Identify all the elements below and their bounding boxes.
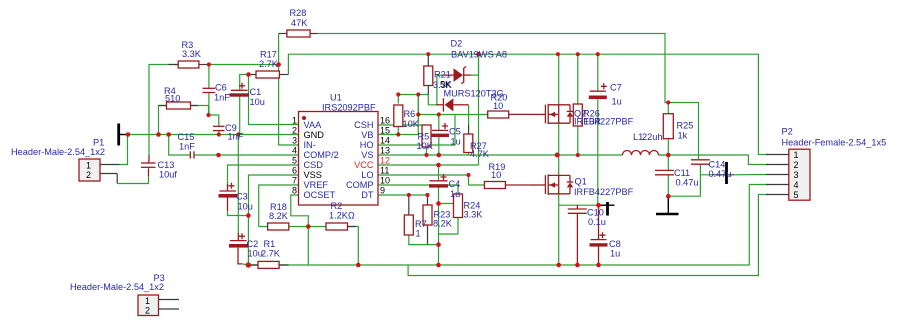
svg-text:1: 1 bbox=[416, 229, 421, 239]
capacitor C2 polarized bbox=[229, 233, 248, 247]
wire R1 right to rail1 bbox=[248, 264, 288, 266]
port bar C10 node bbox=[606, 202, 609, 216]
port bar P2 pin3 bbox=[725, 162, 728, 184]
svg-text:1: 1 bbox=[145, 296, 150, 306]
svg-text:R7: R7 bbox=[415, 219, 427, 229]
wire gnd stem under C11 bbox=[667, 196, 669, 213]
svg-text:13: 13 bbox=[380, 146, 390, 156]
svg-text:7: 7 bbox=[292, 176, 297, 186]
svg-text:4: 4 bbox=[794, 180, 799, 190]
label U1 left pin numbers bbox=[292, 116, 297, 196]
svg-text:D2: D2 bbox=[451, 39, 463, 49]
svg-text:2.7K: 2.7K bbox=[259, 59, 279, 69]
svg-text:2.7K: 2.7K bbox=[261, 249, 281, 259]
svg-text:1k: 1k bbox=[678, 131, 688, 141]
svg-text:14: 14 bbox=[380, 136, 390, 146]
wire R2 right down to rail1 bbox=[348, 227, 359, 266]
capacitor C10 bbox=[568, 209, 587, 213]
resistor R24 bbox=[454, 194, 463, 218]
wire C3 node down to R1 node bbox=[247, 216, 249, 266]
svg-text:4.7K: 4.7K bbox=[470, 149, 490, 159]
svg-text:3: 3 bbox=[794, 170, 799, 180]
port bar left bbox=[117, 124, 120, 146]
svg-text:1u: 1u bbox=[612, 97, 622, 107]
capacitor C14 bbox=[691, 160, 710, 164]
wire output line to P2 pin2 bbox=[557, 154, 622, 156]
IC U1 IRS2092PBF bbox=[299, 112, 379, 206]
svg-text:10uf: 10uf bbox=[159, 170, 177, 180]
wire HO pin14 riser bbox=[378, 115, 455, 146]
svg-text:1nF: 1nF bbox=[228, 132, 244, 142]
svg-text:1: 1 bbox=[292, 116, 297, 126]
wire R28 top rail bbox=[318, 34, 669, 103]
svg-text:1.2KΩ: 1.2KΩ bbox=[329, 211, 355, 221]
wire R17 right to VCC rail bbox=[288, 54, 768, 154]
svg-text:9: 9 bbox=[380, 186, 385, 196]
svg-text:8.2K: 8.2K bbox=[433, 219, 453, 229]
svg-text:5: 5 bbox=[292, 156, 297, 166]
svg-text:VB: VB bbox=[361, 130, 373, 140]
svg-text:1: 1 bbox=[794, 150, 799, 160]
wire R25 top node bbox=[667, 103, 669, 114]
wire R25 node to C14 riser bbox=[668, 103, 698, 160]
wire C4 top to VCC bbox=[438, 165, 440, 180]
capacitor C15 bbox=[190, 151, 194, 158]
svg-text:1u: 1u bbox=[451, 137, 461, 147]
wire C14 bottom lead bbox=[700, 165, 712, 175]
svg-text:510: 510 bbox=[165, 94, 180, 104]
svg-text:0.47u: 0.47u bbox=[709, 169, 732, 179]
wire VS line pin13 to Q2 source bbox=[378, 154, 557, 156]
svg-text:COMP: COMP bbox=[346, 180, 374, 190]
wire C8 bottom to rail1 bbox=[598, 246, 600, 265]
wire R21 bottom to MURS cathode bbox=[428, 95, 436, 105]
svg-text:R25: R25 bbox=[677, 121, 694, 131]
wire MURS anode to R27 top bbox=[468, 105, 470, 125]
svg-text:Header-Male-2.54_1x2: Header-Male-2.54_1x2 bbox=[70, 282, 164, 292]
svg-text:C8: C8 bbox=[609, 239, 621, 249]
svg-text:8.2K: 8.2K bbox=[269, 211, 289, 221]
wire R23 top lead bbox=[427, 195, 429, 205]
svg-text:16: 16 bbox=[380, 116, 390, 126]
svg-text:R6: R6 bbox=[404, 109, 416, 119]
svg-text:C15: C15 bbox=[178, 132, 195, 142]
svg-text:CSD: CSD bbox=[304, 160, 324, 170]
label U1 left pin names bbox=[304, 120, 339, 200]
wire R4 left down to GND line bbox=[159, 106, 167, 135]
svg-text:Header-Female-2.54_1x5: Header-Female-2.54_1x5 bbox=[782, 138, 887, 148]
svg-text:OCSET: OCSET bbox=[304, 190, 336, 200]
svg-text:R1: R1 bbox=[264, 239, 276, 249]
capacitor C9 bbox=[213, 126, 225, 130]
wire left port stub bbox=[120, 134, 129, 136]
svg-text:R21: R21 bbox=[434, 70, 451, 80]
capacitor C5 polarized bbox=[431, 123, 449, 137]
wire C7 top lead bbox=[597, 54, 599, 90]
wire VAA node: R17 left / C1 / pin1 bbox=[240, 75, 249, 91]
resistor R19 bbox=[484, 182, 505, 189]
svg-text:Q1: Q1 bbox=[575, 177, 587, 187]
svg-text:VS: VS bbox=[361, 150, 373, 160]
svg-text:0.47u: 0.47u bbox=[676, 178, 699, 188]
wire C11 bottom to gnd node bbox=[667, 175, 669, 196]
wire R3 output node line bbox=[209, 64, 279, 66]
svg-text:1u: 1u bbox=[610, 249, 620, 259]
resistor R26 bbox=[573, 104, 582, 126]
svg-text:R28: R28 bbox=[290, 8, 307, 18]
resistor R5 bbox=[422, 125, 431, 147]
wire R18 right / R2 left node bbox=[289, 226, 326, 228]
wire C8 top lead bbox=[598, 205, 600, 239]
resistor R21 bbox=[424, 54, 433, 94]
svg-text:C5: C5 bbox=[449, 127, 461, 137]
svg-text:1: 1 bbox=[86, 161, 91, 171]
svg-text:8: 8 bbox=[292, 186, 297, 196]
wire C11 top lead bbox=[667, 155, 669, 170]
diode D1 MURS120T3G bbox=[436, 98, 469, 111]
wire C10 top lead bbox=[576, 205, 578, 209]
svg-text:10u: 10u bbox=[238, 202, 253, 212]
wire pin8 OCSET jog to R18/R2 node bbox=[291, 195, 309, 227]
connector P1 bbox=[79, 159, 120, 181]
svg-text:C7: C7 bbox=[610, 83, 622, 93]
capacitor C3 polarized bbox=[219, 183, 238, 198]
svg-text:C13: C13 bbox=[158, 160, 175, 170]
wire D2 anode jog bbox=[437, 75, 444, 105]
wire port bar to P2 pin3 bbox=[712, 174, 734, 176]
label U1 right pin numbers bbox=[380, 116, 390, 196]
wire C4 node down to rail1 bbox=[438, 204, 440, 266]
wire GND main line bbox=[124, 134, 299, 136]
resistor R6 bbox=[394, 105, 403, 127]
svg-text:10R: 10R bbox=[584, 117, 601, 127]
resistor R4 bbox=[159, 102, 199, 109]
svg-text:3.3K: 3.3K bbox=[464, 210, 484, 220]
wire bottom rail2 bbox=[408, 195, 768, 276]
label P2 pins bbox=[794, 150, 799, 200]
wire DT line pin9 bbox=[378, 194, 428, 196]
wire R7 bottom line bbox=[409, 235, 439, 245]
svg-text:10: 10 bbox=[491, 170, 501, 180]
wire bottom rail1 bbox=[248, 185, 768, 266]
wire R6 bottom on CSH bbox=[397, 127, 399, 135]
svg-text:Header-Male-2.54_1x2: Header-Male-2.54_1x2 bbox=[11, 147, 105, 157]
svg-text:C10: C10 bbox=[587, 208, 604, 218]
svg-text:4: 4 bbox=[292, 146, 297, 156]
svg-text:R17: R17 bbox=[260, 50, 277, 60]
wire node C6 bottom to junction bbox=[208, 93, 210, 116]
resistor R17 bbox=[249, 71, 289, 78]
svg-text:1nF: 1nF bbox=[214, 93, 230, 103]
svg-text:10: 10 bbox=[493, 101, 503, 111]
ground bbox=[656, 213, 679, 216]
wire R23 bottom lead bbox=[427, 225, 429, 245]
wire junction to C9 top bbox=[209, 115, 219, 126]
svg-text:HO: HO bbox=[360, 140, 374, 150]
svg-text:DT: DT bbox=[361, 190, 374, 200]
capacitor C1 polarized bbox=[230, 83, 250, 97]
transistor Q1 bbox=[530, 174, 573, 194]
wire R3 node down to C6 bbox=[208, 65, 210, 89]
svg-text:C6: C6 bbox=[215, 83, 227, 93]
svg-text:47K: 47K bbox=[291, 18, 308, 28]
svg-text:10K: 10K bbox=[417, 141, 434, 151]
wire L1 right node bbox=[659, 154, 669, 156]
svg-text:6: 6 bbox=[292, 166, 297, 176]
wire C1 bottom to GND line bbox=[239, 97, 241, 135]
wire R24 bottom jog bbox=[439, 218, 459, 235]
svg-text:22uh: 22uh bbox=[642, 132, 662, 142]
resistor R28 bbox=[279, 30, 318, 37]
svg-text:1u: 1u bbox=[450, 189, 460, 199]
wire P1 pin2 to C13 bottom bbox=[116, 174, 118, 184]
capacitor C11 bbox=[655, 170, 674, 174]
svg-text:VAA: VAA bbox=[304, 120, 323, 130]
svg-text:VSS: VSS bbox=[304, 170, 322, 180]
svg-text:11: 11 bbox=[380, 166, 389, 176]
wire gnd node to C14 bottom branch bbox=[668, 175, 700, 196]
wire LO line pin11 bbox=[378, 174, 469, 176]
svg-text:BAV19WS A8: BAV19WS A8 bbox=[451, 50, 507, 60]
wire P1 pin1 riser bbox=[120, 135, 128, 165]
svg-text:C4: C4 bbox=[449, 179, 461, 189]
svg-text:C2: C2 bbox=[247, 239, 259, 249]
wire R5 bottom to VS bbox=[426, 147, 428, 155]
svg-text:COMP/2: COMP/2 bbox=[304, 150, 339, 160]
svg-text:2: 2 bbox=[292, 126, 297, 136]
svg-text:3.3K: 3.3K bbox=[182, 49, 202, 59]
svg-text:10u: 10u bbox=[250, 97, 265, 107]
wire R27 bottom to VS bbox=[467, 152, 469, 155]
wire Q1 drain to output bbox=[558, 155, 560, 175]
capacitor C8 polarized bbox=[590, 232, 608, 246]
wire C10 node port stub bbox=[599, 204, 615, 206]
wire C10 bottom to rail1 bbox=[576, 213, 578, 265]
label U1 right pin names bbox=[346, 120, 374, 200]
svg-text:C11: C11 bbox=[674, 168, 690, 178]
wire R25 bottom lead bbox=[667, 139, 669, 155]
wire C7 bottom long lead bbox=[597, 99, 599, 205]
wire node A R6/R21 bbox=[398, 94, 428, 96]
svg-text:IN-: IN- bbox=[304, 140, 316, 150]
wire pin5 CSD to C3 top bbox=[228, 165, 299, 184]
connector P3 bbox=[138, 295, 179, 316]
wire R26 column bbox=[577, 54, 579, 104]
resistor R1 bbox=[248, 261, 288, 268]
svg-text:2: 2 bbox=[145, 306, 150, 316]
resistor R25 bbox=[663, 114, 673, 139]
svg-text:C1: C1 bbox=[250, 87, 262, 97]
wire R28 left to node IN- bbox=[278, 34, 280, 65]
wire VCC line pin12 bbox=[378, 164, 479, 166]
wire C9 bottom to GND line bbox=[218, 131, 220, 135]
wire C15 right to pin4 bbox=[194, 154, 298, 156]
svg-text:U1: U1 bbox=[330, 93, 342, 103]
wire C4 node to R24 left edge bbox=[439, 203, 454, 205]
wire C10/C8 node line bbox=[559, 204, 599, 206]
wire C5 top lead bbox=[438, 115, 440, 131]
svg-text:1nF: 1nF bbox=[179, 142, 195, 152]
wire R4 right jog to C6/C9 node bbox=[191, 106, 209, 116]
wire Q2 source to output bbox=[558, 123, 560, 155]
diode D2 bbox=[444, 54, 479, 83]
capacitor C13 bbox=[141, 162, 156, 168]
wire node B line VB ext bbox=[418, 114, 487, 116]
resistor R18 bbox=[268, 223, 289, 230]
wire C2 bottom to R1 node bbox=[238, 248, 242, 264]
svg-text:2: 2 bbox=[86, 170, 91, 180]
svg-text:2: 2 bbox=[794, 160, 799, 170]
svg-text:0.1u: 0.1u bbox=[588, 217, 606, 227]
svg-text:IRFB4227PBF: IRFB4227PBF bbox=[574, 117, 634, 127]
resistor R2 bbox=[326, 223, 356, 230]
wire CSH line pin16 bbox=[378, 124, 427, 126]
resistor R20 bbox=[479, 111, 509, 118]
svg-text:P1: P1 bbox=[93, 138, 104, 148]
wire R18/R2 node down to rail1 bbox=[307, 227, 309, 266]
svg-text:12: 12 bbox=[380, 156, 390, 166]
svg-text:C14: C14 bbox=[709, 160, 726, 170]
wire pin6 VSS to C3 bottom line bbox=[249, 175, 299, 216]
wire Q2 drain to VCC rail bbox=[558, 54, 560, 105]
wire C3 bottom line bbox=[227, 198, 229, 212]
wire C4 bottom to node bbox=[438, 188, 440, 204]
wire pin7 VREF to R18 bbox=[259, 185, 299, 227]
svg-text:10: 10 bbox=[380, 176, 390, 186]
svg-text:IRFB4227PBF: IRFB4227PBF bbox=[574, 187, 634, 197]
transistor Q2 bbox=[530, 104, 573, 124]
connector P2 bbox=[766, 149, 810, 200]
svg-text:IRS2092PBF: IRS2092PBF bbox=[322, 103, 376, 113]
svg-text:C3: C3 bbox=[236, 192, 248, 202]
wire C5 bottom to VS bbox=[438, 137, 440, 156]
resistor R7 bbox=[404, 215, 413, 235]
capacitor C6 bbox=[203, 88, 216, 92]
svg-text:10K: 10K bbox=[403, 119, 420, 129]
wire R3 left down to C13 bbox=[149, 65, 178, 156]
resistor R3 bbox=[169, 61, 209, 68]
wire LO riser to R19 row bbox=[469, 175, 485, 185]
svg-text:3: 3 bbox=[292, 136, 297, 146]
capacitor C4 polarized bbox=[429, 174, 448, 188]
wire R19 right to Q1 gate bbox=[505, 184, 530, 186]
svg-text:LO: LO bbox=[361, 170, 373, 180]
svg-text:VCC: VCC bbox=[354, 160, 374, 170]
svg-text:VREF: VREF bbox=[304, 180, 329, 190]
wire D2 cathode down to VCC bbox=[478, 54, 480, 165]
inductor L1 bbox=[623, 151, 659, 155]
svg-text:GND: GND bbox=[304, 130, 325, 140]
wire C2 top to GND line bbox=[237, 135, 239, 234]
wire VB line pin15 bbox=[378, 95, 418, 135]
svg-text:R2: R2 bbox=[331, 201, 343, 211]
wire R20 right to Q2 gate bbox=[509, 113, 530, 115]
capacitor C7 polarized bbox=[589, 83, 607, 99]
svg-text:R5: R5 bbox=[418, 132, 430, 142]
wire R7 top lead bbox=[408, 195, 410, 215]
wire node IN- vertical to pin3 bbox=[279, 65, 299, 146]
svg-text:P2: P2 bbox=[782, 127, 793, 137]
svg-text:5: 5 bbox=[794, 190, 799, 200]
resistor R23 bbox=[423, 205, 432, 225]
wire R6 top lead bbox=[397, 95, 399, 104]
svg-text:15: 15 bbox=[380, 126, 390, 136]
wire COMP line pin10 to R24 bbox=[378, 185, 458, 194]
svg-text:CSH: CSH bbox=[354, 120, 373, 130]
wire Q1 source down to rail1 bbox=[558, 194, 560, 265]
wire C15 left branch bbox=[169, 135, 190, 156]
resistor R27 bbox=[464, 134, 473, 153]
